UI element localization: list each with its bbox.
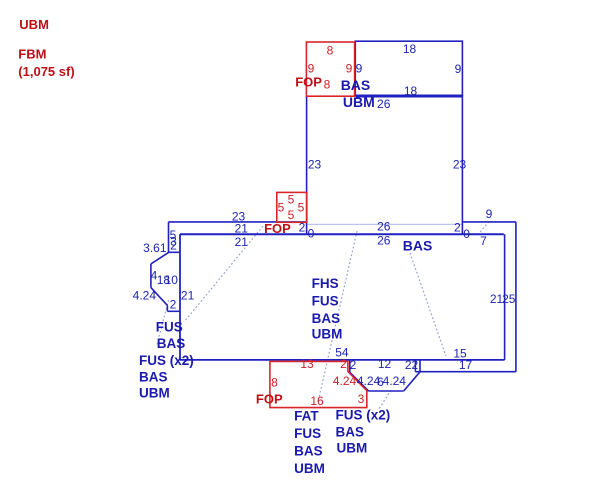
wall mid-right vertical (461, 95, 463, 234)
svg-text:8: 8 (327, 44, 334, 58)
svg-text:2: 2 (299, 221, 306, 235)
svg-text:(1,075 sf): (1,075 sf) (18, 64, 74, 79)
leader to FUS (x2) right block (379, 390, 391, 409)
svg-text:21: 21 (181, 289, 195, 303)
wall hexagon bottom (369, 390, 404, 392)
svg-text:22: 22 (405, 358, 419, 372)
svg-text:2: 2 (454, 221, 461, 235)
wall BAS top-left horizontal (169, 221, 307, 223)
svg-text:UBM: UBM (337, 441, 368, 456)
svg-text:FOP: FOP (256, 392, 283, 407)
svg-text:9: 9 (308, 62, 315, 76)
svg-text:5: 5 (278, 201, 285, 215)
leader line to left FUS/BAS labels (184, 226, 263, 322)
wall main bottom edge (180, 359, 505, 361)
svg-text:BAS: BAS (139, 370, 168, 385)
svg-text:13: 13 (300, 357, 314, 371)
svg-text:FOP: FOP (295, 75, 322, 90)
svg-text:9: 9 (455, 62, 462, 76)
svg-text:4.24: 4.24 (333, 374, 357, 388)
svg-text:UBM: UBM (312, 327, 343, 342)
svg-text:FUS (x2): FUS (x2) (336, 408, 391, 423)
wall UBM right vertical (504, 234, 506, 360)
svg-text:8: 8 (271, 376, 278, 390)
wall bay bottom vertical (166, 305, 168, 311)
svg-text:23: 23 (308, 158, 322, 172)
svg-text:2: 2 (350, 358, 357, 372)
wall small connector (169, 251, 181, 253)
svg-text:2: 2 (340, 357, 347, 371)
wall hexagon right diagonal (404, 372, 420, 391)
wall bay upper diagonal (151, 252, 169, 264)
svg-text:5: 5 (298, 201, 305, 215)
svg-text:UBM: UBM (343, 94, 375, 110)
wall notch right vertical (419, 360, 421, 372)
porch FOP1 rectangle (306, 42, 354, 96)
svg-text:5: 5 (288, 193, 295, 207)
wall bay left vertical (150, 264, 152, 288)
svg-text:FUS: FUS (294, 426, 321, 441)
svg-text:0: 0 (308, 227, 315, 241)
wall bay lower diagonal (151, 288, 168, 306)
svg-text:FUS: FUS (312, 294, 339, 309)
svg-text:12: 12 (378, 357, 392, 371)
svg-text:3: 3 (358, 392, 365, 406)
svg-text:2: 2 (170, 239, 177, 253)
svg-text:0: 0 (463, 227, 470, 241)
svg-text:FUS (x2): FUS (x2) (139, 353, 194, 368)
wall UBM top edge (356, 96, 463, 98)
svg-text:10: 10 (165, 273, 179, 287)
porch FOP2 rectangle (277, 192, 307, 222)
wall hexagon left diagonal (350, 372, 369, 391)
svg-text:UBM: UBM (294, 461, 325, 476)
svg-text:FHS: FHS (312, 276, 339, 291)
svg-text:UBM: UBM (19, 17, 49, 32)
svg-text:21: 21 (235, 222, 249, 236)
porch FOP3 outline (270, 361, 367, 407)
svg-text:26: 26 (377, 97, 391, 111)
svg-text:25: 25 (502, 292, 516, 306)
leader line to FAT block (318, 231, 357, 402)
svg-text:4.24: 4.24 (383, 374, 407, 388)
wall BAS bottom-right horizontal (415, 371, 516, 373)
svg-text:23: 23 (453, 158, 467, 172)
svg-text:8: 8 (324, 78, 331, 92)
svg-text:21: 21 (235, 235, 249, 249)
svg-text:BAS: BAS (336, 425, 365, 440)
svg-text:FUS: FUS (156, 320, 183, 335)
svg-text:26: 26 (377, 234, 391, 248)
wall left vertical V1 (168, 222, 170, 252)
svg-text:BAS: BAS (312, 311, 341, 326)
wall BAS top-right horizontal (462, 221, 516, 223)
leader line from BAS to notch (410, 253, 446, 356)
svg-text:4.24: 4.24 (133, 289, 157, 303)
svg-text:9: 9 (346, 62, 353, 76)
svg-text:5: 5 (288, 208, 295, 222)
svg-text:FBM: FBM (18, 47, 46, 62)
wall upper wing BAS rectangle (355, 41, 462, 95)
wall notch left vertical (414, 360, 416, 372)
wall left vertical V2 (179, 234, 181, 360)
wall hexagon left vertical (349, 361, 351, 373)
FHS pale top edge line (308, 223, 463, 225)
svg-text:18: 18 (403, 42, 417, 56)
svg-text:BAS: BAS (294, 444, 323, 459)
leader to FUS (x2) left block (157, 300, 169, 345)
svg-text:FOP: FOP (264, 221, 291, 236)
svg-text:7: 7 (480, 234, 487, 248)
svg-text:16: 16 (310, 394, 324, 408)
svg-text:FAT: FAT (294, 409, 319, 424)
wall mid-left vertical (306, 96, 308, 234)
svg-text:BAS: BAS (403, 238, 433, 254)
short leader top right (478, 222, 489, 235)
svg-text:26: 26 (377, 220, 391, 234)
wall UBM top horizontal (180, 233, 504, 235)
svg-text:UBM: UBM (139, 386, 170, 401)
svg-text:17: 17 (459, 358, 473, 372)
svg-text:BAS: BAS (341, 77, 371, 93)
svg-text:9: 9 (356, 62, 363, 76)
wall BAS right vertical (515, 222, 517, 372)
svg-text:18: 18 (404, 84, 418, 98)
svg-text:3.61: 3.61 (143, 241, 167, 255)
wall bay bottom connector (167, 310, 180, 312)
svg-text:2: 2 (170, 298, 177, 312)
svg-text:9: 9 (486, 207, 493, 221)
svg-text:BAS: BAS (157, 336, 186, 351)
